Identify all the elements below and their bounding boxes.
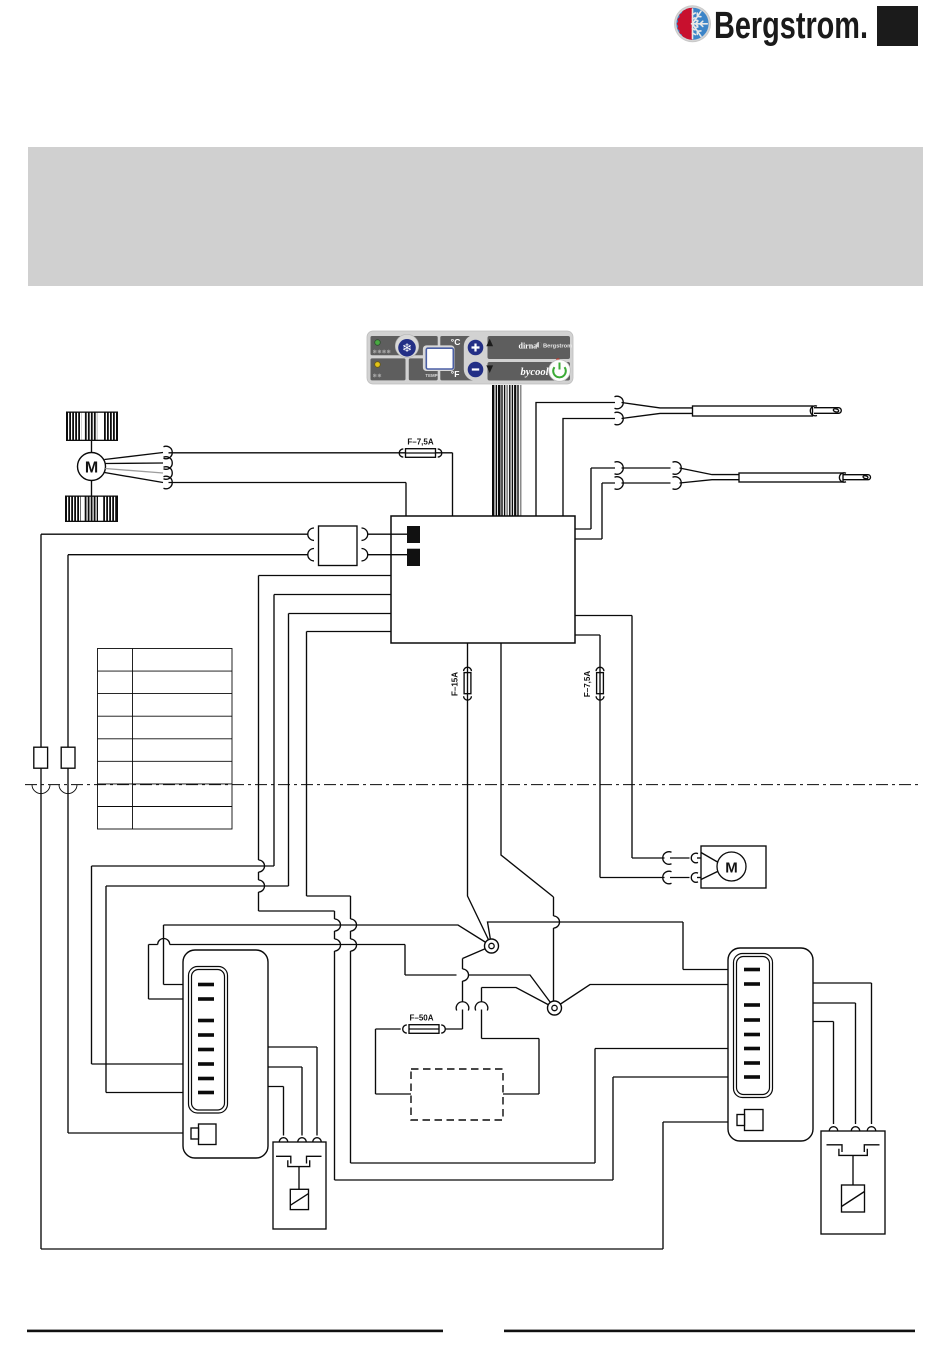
svg-text:M: M — [85, 460, 98, 477]
legend table — [98, 649, 233, 830]
plus/minus capsule — [464, 335, 487, 381]
node 1 branch to right relay pin 1 — [488, 922, 745, 970]
fuse F-7,5A (condenser) — [583, 667, 604, 700]
connector at blower wire 3 — [164, 467, 173, 480]
control unit left wire 3 (to left relay pin 8) — [106, 614, 391, 1093]
red standby LED — [556, 358, 560, 362]
svg-text:M: M — [725, 860, 738, 877]
probe 1 lead taper — [622, 403, 693, 419]
inline connector B — [61, 747, 75, 768]
hop x258/y886 — [259, 880, 265, 892]
bus wire to node 2 (left relay pin 2) — [149, 945, 555, 1009]
dark section: fan LEDs bottom-left — [371, 358, 406, 380]
black corner square — [877, 6, 918, 46]
temperature probe 1 wires (from control unit top) — [536, 403, 615, 517]
hop x462/y975 — [463, 969, 469, 981]
clutch contact plate — [276, 1156, 322, 1166]
compressor clutch (left) — [273, 1142, 326, 1229]
left relay outputs to clutch — [268, 1047, 317, 1136]
clutch contact plate — [827, 1145, 880, 1156]
temperature probe 2 body — [739, 473, 843, 482]
hop x334/y925 — [335, 919, 341, 931]
hop x334/y945 — [335, 939, 341, 951]
down arrow — [486, 365, 493, 373]
svg-text:❄: ❄ — [402, 341, 412, 355]
svg-text:TEMP: TEMP — [425, 373, 437, 378]
clutch coil — [842, 1185, 865, 1212]
dark section: mode LEDs top-left — [371, 336, 438, 355]
left relay pins 1-8 — [198, 983, 214, 1095]
temperature probe 1 body — [693, 406, 813, 416]
compressor clutch (right) — [821, 1131, 885, 1234]
bulkhead grommet A — [32, 785, 50, 794]
node 2 branch to right relay pin 2 — [555, 985, 745, 1009]
fuse F-50A — [403, 1014, 446, 1034]
condenser motor feed 2 (via fuse F-7,5A) — [575, 635, 665, 878]
blower motor M1 shaft stubs — [91, 441, 93, 496]
connector arc pair node2 drop — [475, 1002, 488, 1011]
svg-text:F–7,5A: F–7,5A — [583, 671, 592, 697]
evaporator blower: upper fan hatch block — [66, 412, 118, 442]
footer rule left — [27, 1330, 443, 1333]
svg-text:F–50A: F–50A — [409, 1014, 433, 1023]
clutch terminals — [829, 1127, 876, 1131]
condenser motor feed 1 (control unit right) — [575, 616, 665, 859]
right relay/condenser unit — [728, 948, 813, 1141]
blower wire 1 (to fuse F-7,5A) — [105, 453, 453, 517]
node 1 branch down to F-50A — [463, 946, 492, 1002]
connector at blower wire 4 — [164, 476, 173, 489]
condenser connector pair wire 1 — [663, 852, 672, 865]
dark section: bottom-right row — [488, 362, 571, 381]
up arrow — [486, 339, 493, 347]
left relay terminal frame — [189, 967, 228, 1114]
control unit left wire 2 (to left relay pin 6) — [92, 595, 392, 1065]
harness wires to control unit — [368, 534, 407, 555]
bulkhead grommet B — [59, 785, 77, 794]
right relay outputs to clutch — [813, 983, 872, 1124]
dark section: degC/degF column — [440, 336, 478, 380]
ribbon cable from panel to control unit — [493, 385, 521, 516]
hop y944/x163 — [158, 939, 170, 945]
yellow LED — [375, 362, 381, 368]
node 2 branch (left leg via connector) — [482, 988, 555, 1009]
svg-text:F–15A: F–15A — [451, 672, 460, 696]
blower wire 3 (unused, grey) — [105, 469, 163, 474]
green LED + indicator glyphs — [375, 340, 381, 346]
control unit left wire 4 (to right relay pin 6) — [307, 632, 745, 1164]
svg-text:❄❄❄❄: ❄❄❄❄ — [373, 349, 392, 356]
probe 2 lead taper — [680, 468, 740, 483]
blower wire 2 (unused) — [105, 462, 163, 465]
panel base — [367, 331, 573, 384]
probe 1 sensor tip — [810, 406, 817, 416]
blue snowflake button — [395, 334, 418, 357]
bus wire to node 1 (left relay pin 1) — [164, 925, 492, 985]
right relay terminal frame — [734, 954, 773, 1098]
connector pair B probe 2 — [673, 462, 682, 475]
svg-text:Bergstrom: Bergstrom — [543, 344, 572, 350]
grey title banner — [28, 147, 923, 286]
condenser connector pair wire 2 — [663, 871, 672, 884]
node 1 junction — [485, 939, 499, 953]
right relay pins 1-8 — [744, 968, 760, 1079]
svg-text:Bergstrom.: Bergstrom. — [714, 5, 868, 47]
control unit pin block 1 — [407, 526, 420, 543]
connector at blower wire 1 — [164, 446, 173, 459]
optional accessory (dashed box) — [411, 1069, 503, 1120]
svg-text:❄❄: ❄❄ — [373, 373, 383, 380]
probe 2 sensor tip — [839, 473, 846, 482]
fuse F-15A feed (control unit bottom to node 1) — [468, 643, 492, 946]
plus button — [468, 340, 484, 356]
left relay bottom connector — [199, 1124, 217, 1145]
power button — [549, 360, 571, 382]
node 2 junction — [548, 1001, 562, 1015]
inline connector A — [34, 747, 48, 768]
svg-text:bycool: bycool — [521, 367, 549, 378]
wire control unit bottom to node 2 — [501, 643, 554, 1008]
minus button — [468, 362, 484, 378]
clutch coil — [290, 1189, 308, 1209]
svg-text:F–7,5A: F–7,5A — [407, 438, 433, 447]
hop x350/y945 — [351, 939, 357, 951]
temp display — [423, 345, 455, 371]
blower motor M1 — [78, 453, 106, 481]
right relay bottom connector — [745, 1110, 764, 1131]
fuse F-15A — [451, 667, 472, 700]
temperature probe 2 wires (from control unit right) — [575, 468, 615, 529]
footer rule right — [504, 1330, 915, 1333]
hop x258/y866 — [259, 860, 265, 872]
supply wire A (x41 long run) — [41, 534, 308, 747]
wires between connectors probe 2 — [622, 468, 671, 483]
svg-text:°C: °C — [451, 337, 461, 347]
F-50A left wire to optional unit — [376, 1029, 412, 1094]
fuse F-7,5A (blower feed) — [399, 438, 442, 458]
left relay/evaporator unit — [183, 950, 268, 1158]
main harness connector (2-pole) — [319, 526, 358, 566]
blower wire 4 (to control unit) — [105, 473, 407, 517]
svg-text:dirna: dirna — [519, 341, 538, 350]
hop x553/y922 — [554, 916, 560, 928]
evaporator blower: lower fan hatch block — [65, 496, 118, 523]
control unit left wire 1 (to right relay pin 8) — [259, 576, 745, 1181]
control unit pin block 2 — [407, 549, 420, 566]
svg-text:°F: °F — [451, 369, 460, 379]
connector at blower wire 2 — [164, 457, 173, 470]
supply wire B (x68 long run) — [68, 555, 308, 748]
harness connector arcs — [308, 528, 314, 540]
connector pair A probe 2 — [615, 462, 624, 475]
control unit (electronic control box) — [391, 516, 575, 643]
clutch terminals — [279, 1138, 321, 1142]
dark section: top-right brand row — [488, 336, 571, 359]
cab bulkhead dash-dot line — [25, 784, 918, 786]
condenser motor M2 — [717, 852, 746, 881]
Bergstrom logo emblem (red sun / blue snowflake circle) — [674, 5, 711, 42]
hop x350/y925 — [351, 919, 357, 931]
condenser fan motor box — [701, 846, 766, 888]
connector arc pair F-50A top — [456, 1002, 469, 1011]
dark section: TEMP cell — [409, 358, 438, 380]
connector pair probe 1 — [615, 396, 624, 409]
